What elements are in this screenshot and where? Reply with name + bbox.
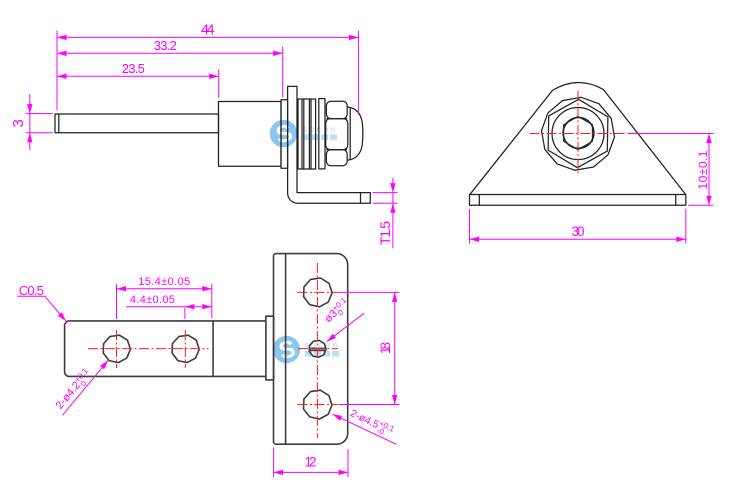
svg-text:18: 18 <box>378 342 393 354</box>
svg-text:12: 12 <box>305 455 317 470</box>
svg-text:4.4±0.05: 4.4±0.05 <box>130 294 175 306</box>
svg-text:30: 30 <box>572 224 585 239</box>
svg-text:3: 3 <box>10 119 27 127</box>
svg-text:C0.5: C0.5 <box>19 283 44 298</box>
svg-text:T1.5: T1.5 <box>377 221 393 245</box>
svg-text:33.2: 33.2 <box>154 38 177 53</box>
svg-text:socen: socen <box>303 124 339 134</box>
svg-text:44: 44 <box>201 22 215 39</box>
svg-text:10±0.1: 10±0.1 <box>696 150 710 189</box>
svg-text:23.5: 23.5 <box>122 61 145 76</box>
svg-text:15.4±0.05: 15.4±0.05 <box>138 276 190 288</box>
